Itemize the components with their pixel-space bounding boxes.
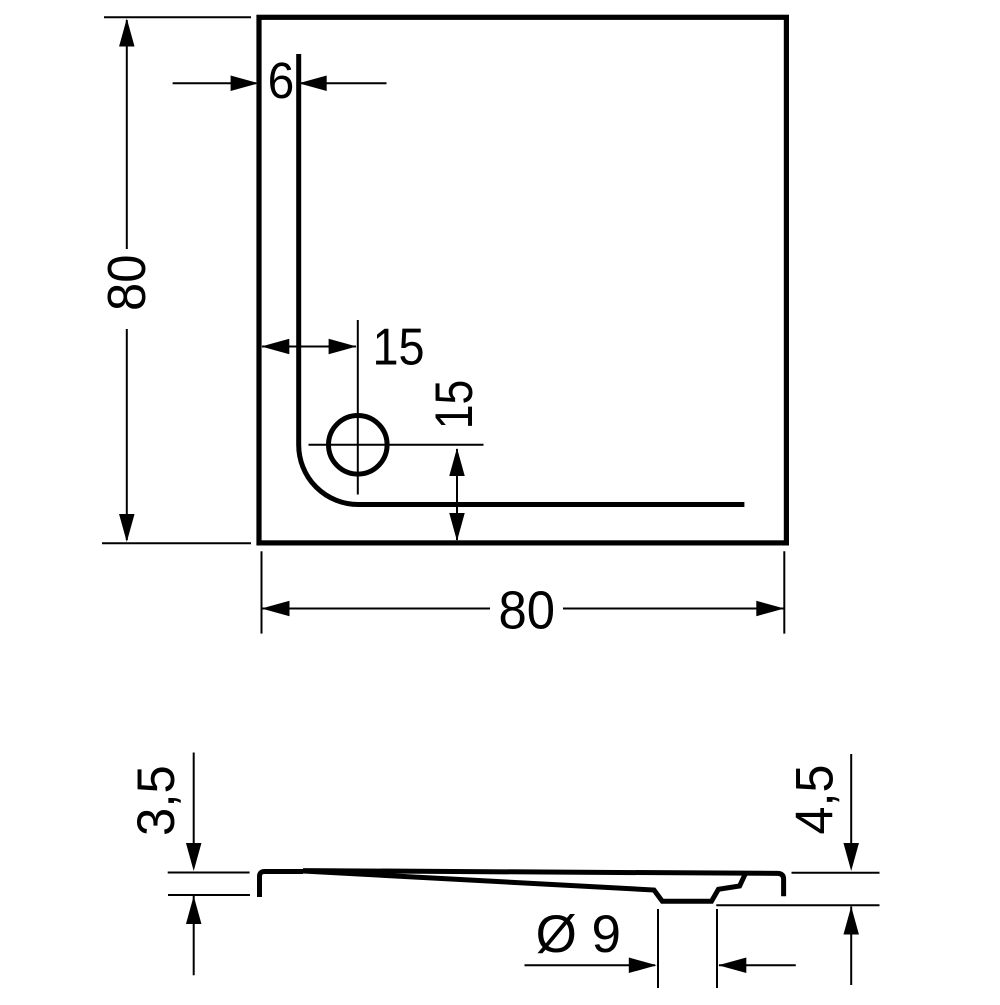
dim 4,5: upper arrowhead (points down): [843, 843, 859, 871]
dim 3,5: top extension line: [168, 872, 250, 874]
svg-text:3,5: 3,5: [127, 765, 186, 836]
dim 3,5: upper arrowhead (points down): [186, 843, 202, 871]
dim 80 left: bottom extension line: [102, 542, 251, 544]
dim 80 bottom: dimension line right segment: [563, 608, 784, 610]
dim 80 bottom: left extension line: [261, 551, 263, 633]
dim 6: right arrowhead (points left): [299, 76, 327, 92]
dim 6: left arrowhead (points right): [231, 76, 259, 92]
dim 80 left: dimension line upper segment: [126, 20, 128, 249]
dim diameter 9: left extension line: [657, 909, 659, 988]
dim 4,5: bottom extension line: [716, 904, 879, 906]
dim 15 vertical: dimension line: [456, 449, 458, 540]
dim 15 vertical: down arrowhead: [449, 513, 465, 541]
inner profile line (wall inner edge + floor edge): [299, 54, 745, 505]
dim diameter 9: left dimension line: [525, 964, 656, 966]
drain vertical centerline: [357, 320, 359, 495]
svg-text:Ø 9: Ø 9: [536, 905, 621, 964]
dim 80 bottom: left arrowhead: [262, 601, 290, 617]
side view: top surface line and right edge: [303, 871, 784, 897]
dim 4,5: top extension line: [792, 872, 880, 874]
dim 4,5: lower arrowhead (points up): [843, 907, 859, 935]
svg-text:80: 80: [499, 582, 556, 641]
dim diameter 9: left arrowhead (points right): [629, 958, 657, 974]
drain horizontal centerline: [309, 444, 484, 446]
dim 15 horizontal: left arrowhead: [261, 339, 289, 355]
dim 80 left: top extension line: [104, 16, 251, 18]
dim 3,5: bottom extension line: [168, 894, 250, 896]
outer square (top view of tray): [259, 17, 786, 543]
drain circle: [329, 416, 388, 475]
dim diameter 9: right arrowhead (points left): [718, 958, 746, 974]
side view: left hook and rim segment: [260, 872, 304, 898]
dim 3,5: upper dimension line: [193, 753, 195, 846]
dim 3,5: lower arrowhead (points up): [186, 896, 202, 924]
svg-text:6: 6: [268, 53, 295, 110]
dim 4,5: lower dimension line: [850, 907, 852, 986]
dim 80 left: bottom arrowhead: [119, 514, 135, 542]
svg-text:4,5: 4,5: [784, 765, 843, 835]
dim 80 left: top arrowhead: [119, 19, 135, 47]
svg-text:80: 80: [98, 255, 157, 312]
dim diameter 9: right extension line: [716, 909, 718, 988]
dim 6: left line: [173, 82, 256, 84]
dim 80 left: dimension line lower segment: [126, 329, 128, 540]
dim 80 bottom: right arrowhead: [756, 601, 784, 617]
dim diameter 9: right dimension line: [719, 964, 796, 966]
dim 4,5: upper dimension line: [850, 754, 852, 845]
dim 6: right line: [300, 82, 387, 84]
dim 3,5: lower dimension line: [193, 896, 195, 975]
dim 15 vertical: up arrowhead: [449, 448, 465, 476]
dim 80 bottom: right extension line: [783, 551, 785, 633]
side view: sloping floor and drain recess: [303, 871, 745, 901]
dim 15 horizontal: dimension line: [262, 346, 356, 348]
svg-text:15: 15: [372, 319, 424, 377]
dim 15 horizontal: right arrowhead: [329, 339, 357, 355]
dim 80 bottom: dimension line left segment: [262, 608, 490, 610]
svg-text:15: 15: [425, 380, 483, 430]
